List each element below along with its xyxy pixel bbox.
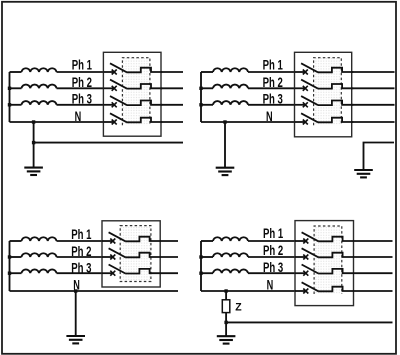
winding L3 BR — [213, 269, 248, 273]
wire Ph2 TR out — [352, 87, 395, 89]
wire Ph1 TR out — [352, 71, 395, 73]
breaker pole Ph1 BR — [295, 232, 354, 243]
junction bus-Ph2 TR — [199, 87, 202, 90]
svg-text:Ph 1: Ph 1 — [263, 57, 284, 72]
wire N TL out — [161, 121, 183, 123]
winding L3 TR — [213, 101, 248, 105]
breaker pole Ph3 TR — [295, 96, 354, 107]
junction PE TL — [32, 141, 35, 144]
wire Ph2 TL out — [161, 87, 183, 89]
wire PE BR — [226, 321, 392, 323]
wire Ph3 TL out — [161, 104, 183, 106]
svg-text:N: N — [266, 109, 273, 124]
breaker linkage dashed box TL — [122, 58, 149, 126]
breaker pole Ph2 TR — [295, 80, 354, 91]
svg-text:Ph 1: Ph 1 — [263, 226, 284, 241]
winding L3 TL — [22, 101, 57, 105]
winding L1 TR — [213, 68, 248, 72]
wire Ph1 TL out — [161, 71, 183, 73]
wire earth drop BL — [75, 291, 77, 336]
wire earth drop TR — [224, 122, 226, 168]
wire Ph3 TR out — [352, 104, 395, 106]
node: source star bus TL — [9, 72, 11, 122]
winding L1 BL — [22, 237, 57, 241]
svg-text:Ph 2: Ph 2 — [263, 243, 283, 258]
wire Ph3 BL to breaker — [57, 272, 103, 274]
breaker linkage halftone BL — [120, 226, 151, 282]
wire Ph2 BL left — [10, 256, 22, 258]
breaker pole Ph3 TL — [103, 96, 162, 107]
svg-text:Ph 1: Ph 1 — [72, 57, 93, 72]
wire Ph2 TR to breaker — [248, 87, 295, 89]
svg-text:Ph 3: Ph 3 — [263, 92, 283, 107]
wire Ph3 BL out — [160, 272, 178, 274]
wire Ph3 BL left — [10, 272, 22, 274]
ground BR — [217, 336, 236, 343]
junction PE BR — [224, 321, 227, 324]
junction N-drop TR — [223, 120, 226, 123]
wire N TL — [10, 121, 104, 123]
wire Ph2 TL left — [10, 87, 22, 89]
wire Ph3 BR out — [354, 272, 393, 274]
breaker pole Ph3 BR — [295, 265, 354, 276]
wire Ph3 TR left — [201, 104, 213, 106]
ground TR load — [354, 170, 373, 177]
breaker pole Ph3 BL — [102, 265, 161, 276]
winding L1 TL — [22, 68, 57, 72]
svg-text:Ph 3: Ph 3 — [263, 260, 283, 275]
ground BL — [66, 336, 85, 343]
wire Z lead top BR — [225, 291, 227, 300]
wire Ph1 BR out — [354, 240, 393, 242]
ground TL — [24, 168, 43, 175]
breaker box TR — [295, 52, 352, 137]
wire earth drop TL — [33, 122, 35, 168]
winding L2 TR — [213, 85, 248, 89]
svg-text:Ph 3: Ph 3 — [72, 92, 92, 107]
breaker linkage halftone TL — [122, 58, 149, 126]
wire Ph2 BL to breaker — [57, 256, 103, 258]
junction N-Z BR — [224, 289, 227, 292]
wire Ph1 BL left — [10, 240, 22, 242]
breaker linkage halftone TR — [314, 58, 342, 126]
wire Ph2 BR left — [201, 256, 213, 258]
wire Ph1 TL to breaker — [57, 71, 104, 73]
wire Ph1 BR left — [201, 240, 213, 242]
svg-text:Ph 2: Ph 2 — [263, 75, 283, 90]
svg-text:N: N — [75, 109, 82, 124]
breaker box BR — [295, 221, 354, 306]
wire Ph1 TR left — [201, 71, 213, 73]
breaker linkage dashed box BL — [120, 226, 151, 282]
node: source star bus BL — [9, 241, 11, 291]
wire Ph2 TL to breaker — [57, 87, 104, 89]
svg-text:N: N — [267, 278, 274, 293]
breaker pole Ph2 BR — [295, 248, 354, 259]
winding L2 BL — [22, 253, 57, 257]
svg-text:Ph 1: Ph 1 — [71, 227, 92, 242]
wire N BR — [201, 290, 295, 292]
svg-text:Ph 2: Ph 2 — [72, 75, 92, 90]
junction bus-Ph2 TL — [8, 87, 11, 90]
wire PE TL — [34, 142, 183, 144]
wire Ph2 TR left — [201, 87, 213, 89]
wire PEN BL — [10, 290, 179, 292]
wire Ph2 BR to breaker — [248, 256, 295, 258]
breaker box TL — [103, 52, 161, 136]
winding L2 TL — [22, 85, 57, 89]
svg-text:Ph 2: Ph 2 — [71, 244, 91, 259]
svg-text:Ph 3: Ph 3 — [71, 260, 91, 275]
breaker pole N BR — [295, 282, 354, 293]
wire N TR — [201, 121, 295, 123]
wire Ph3 TR to breaker — [248, 104, 295, 106]
wire Ph3 BR left — [201, 272, 213, 274]
breaker pole Ph2 BL — [102, 248, 161, 259]
winding L3 BL — [22, 269, 57, 273]
wire Z lead bottom BR — [225, 313, 227, 337]
impedance Z BR — [222, 300, 230, 313]
breaker pole Ph1 TL — [103, 63, 162, 74]
breaker pole N TL — [103, 113, 162, 124]
wire Ph3 BR to breaker — [248, 272, 295, 274]
junction bus-Ph3 BL — [8, 272, 11, 275]
wire N BR out — [354, 290, 393, 292]
svg-text:Z: Z — [235, 302, 242, 314]
winding L1 BR — [213, 237, 248, 241]
wire N TR out — [352, 121, 395, 123]
junction bus-Ph3 TR — [199, 103, 202, 106]
wire Ph3 TL to breaker — [57, 104, 104, 106]
ground TR source — [216, 168, 235, 175]
wire Ph3 TL left — [10, 104, 22, 106]
wire Ph2 BR out — [354, 256, 393, 258]
junction bus-Ph3 BR — [199, 272, 202, 275]
wire Ph1 TR to breaker — [248, 71, 295, 73]
junction N-drop TL — [32, 120, 35, 123]
junction bus-Ph2 BL — [8, 255, 11, 258]
node: source star bus BR — [200, 241, 202, 291]
breaker pole Ph2 TL — [103, 80, 162, 91]
wire Ph1 BL to breaker — [57, 240, 103, 242]
breaker linkage halftone BR — [314, 226, 342, 294]
junction bus-Ph2 BR — [199, 255, 202, 258]
wire Ph1 TL left — [10, 71, 22, 73]
wire Ph2 BL out — [160, 256, 178, 258]
junction PEN-drop BL — [74, 289, 77, 292]
svg-text:N: N — [73, 277, 80, 292]
wire load earth TR — [364, 143, 395, 171]
breaker linkage dashed box BR — [314, 226, 342, 294]
wire Ph1 BR to breaker — [248, 240, 295, 242]
breaker pole N TR — [295, 113, 354, 124]
wire Ph1 BL out — [160, 240, 178, 242]
breaker pole Ph1 TR — [295, 63, 354, 74]
breaker pole Ph1 BL — [102, 232, 161, 243]
breaker linkage dashed box TR — [314, 58, 342, 126]
winding L2 BR — [213, 253, 248, 257]
node: source star bus TR — [200, 72, 202, 122]
breaker box BL — [102, 221, 160, 287]
junction bus-Ph3 TL — [8, 103, 11, 106]
